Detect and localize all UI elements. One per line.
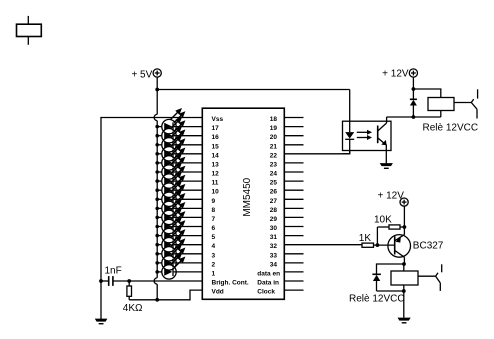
svg-text:32: 32	[270, 243, 278, 250]
wire Vss to ground rail	[101, 118, 202, 320]
pin label 5	[212, 234, 216, 241]
svg-text:10K: 10K	[374, 215, 392, 226]
LED D17 (pin 1)	[155, 253, 202, 279]
svg-text:28: 28	[270, 207, 278, 214]
svg-text:17: 17	[212, 125, 220, 132]
LED D1 (pin 17)	[155, 108, 202, 134]
junction +12V/diode/coil	[412, 87, 416, 91]
power +12V (bottom)	[378, 191, 409, 207]
svg-text:Relè 12VCC: Relè 12VCC	[423, 123, 479, 134]
svg-text:BC327: BC327	[413, 241, 444, 252]
LED D7 (pin 11)	[155, 163, 202, 189]
wire +5V vertical	[156, 77, 158, 89]
pin label 9	[212, 198, 216, 205]
svg-text:10: 10	[212, 189, 220, 196]
pin label 6	[212, 225, 216, 232]
pin label 32	[270, 243, 278, 250]
wire pin stub right 25	[284, 180, 303, 182]
pin label 33	[270, 252, 278, 259]
pin label 11	[212, 180, 219, 187]
wire pin stub right 26	[284, 189, 303, 191]
junction diode bottom	[412, 115, 416, 119]
wire LED anode bus	[154, 90, 157, 300]
pin label 29	[270, 216, 278, 223]
wire pin stub right 28	[284, 207, 303, 209]
pin label Data in	[257, 280, 279, 287]
wire pin stub right 18	[284, 117, 303, 119]
svg-text:26: 26	[270, 189, 278, 196]
svg-text:MM5450: MM5450	[242, 177, 253, 216]
wire +12V down	[412, 77, 414, 89]
label MM5450	[242, 177, 253, 216]
LED D14 (pin 4)	[155, 226, 202, 252]
pin label 2	[212, 261, 216, 268]
svg-text:data en: data en	[257, 270, 280, 277]
transistor Q1 BC327	[388, 235, 444, 258]
pin label 14	[212, 152, 220, 159]
LED D9 (pin 9)	[155, 181, 202, 207]
wire pin stub right 29	[284, 216, 303, 218]
pin label 8	[212, 207, 216, 214]
wire pin stub right data en	[284, 271, 303, 273]
svg-text:15: 15	[212, 143, 220, 150]
LED D13 (pin 5)	[155, 217, 202, 243]
power +5V	[131, 69, 161, 80]
relay K2 coil	[349, 264, 418, 305]
wire pin stub right Clock	[284, 289, 303, 291]
LED D11 (pin 7)	[155, 199, 202, 225]
svg-text:25: 25	[270, 180, 278, 187]
svg-text:13: 13	[212, 161, 220, 168]
optocoupler phototransistor	[378, 117, 387, 163]
pin label Vdd	[212, 289, 224, 296]
LED D12 (pin 6)	[155, 208, 202, 234]
svg-text:Brigh. Cont.: Brigh. Cont.	[212, 280, 249, 287]
svg-text:Clock: Clock	[257, 289, 275, 296]
wire pin stub right 20	[284, 135, 303, 137]
ground (left rail)	[95, 319, 108, 325]
pin label 19	[270, 125, 278, 132]
pin label 3	[212, 252, 216, 259]
svg-text:22: 22	[270, 152, 278, 159]
LED D2 (pin 16)	[155, 117, 202, 143]
pin label 31	[270, 234, 278, 241]
resistor R2 10K	[374, 215, 404, 246]
optocoupler LED	[343, 121, 355, 154]
relay K1 coil	[423, 98, 479, 134]
pin label 7	[212, 216, 216, 223]
optocoupler U2 body	[343, 121, 392, 150]
wire to ground	[403, 291, 405, 318]
wire pin stub right 27	[284, 198, 303, 200]
svg-text:Data in: Data in	[257, 280, 279, 287]
op-amp U1 MM5450 body	[202, 108, 284, 299]
optocoupler coupling arrows	[357, 130, 372, 140]
power +12V (top)	[382, 69, 417, 80]
wire pin stub right 32	[284, 244, 303, 246]
pin label 16	[212, 134, 220, 141]
svg-text:27: 27	[270, 198, 278, 205]
svg-text:6: 6	[212, 225, 216, 232]
junction relay bottom	[402, 289, 406, 293]
svg-text:3: 3	[212, 252, 216, 259]
wire pin stub right 21	[284, 144, 303, 146]
svg-text:Vss: Vss	[212, 116, 224, 123]
capacitor C1 1nF	[101, 265, 122, 286]
svg-text:31: 31	[270, 234, 278, 241]
svg-text:1K: 1K	[359, 233, 372, 244]
svg-text:18: 18	[270, 116, 278, 123]
junction 10K right	[403, 225, 407, 229]
pin label Vss	[212, 116, 224, 123]
crystal X1	[17, 16, 42, 45]
resistor R3 1K	[359, 233, 395, 247]
svg-text:+ 5V: + 5V	[131, 69, 152, 80]
diode D18 flyback (top relay)	[410, 89, 417, 117]
relay K2 contact	[418, 264, 442, 291]
svg-text:29: 29	[270, 216, 278, 223]
svg-text:2: 2	[212, 261, 216, 268]
ground (optocoupler emitter)	[380, 163, 393, 169]
wire +12V to emitter node	[403, 206, 405, 235]
svg-text:+ 12V: + 12V	[382, 69, 409, 80]
junction rail/capacitor	[99, 279, 103, 283]
wire +12V to coil top	[413, 89, 440, 98]
LED D5 (pin 13)	[155, 144, 202, 170]
wire pin stub right 19	[284, 126, 303, 128]
svg-text:1nF: 1nF	[105, 265, 122, 276]
LED D16 (pin 2)	[155, 244, 202, 270]
pin label 26	[270, 189, 278, 196]
pin label 28	[270, 207, 278, 214]
wire pin stub right 24	[284, 171, 303, 173]
pin label 21	[270, 143, 278, 150]
pin label 24	[270, 171, 278, 178]
wire collector down	[403, 257, 405, 264]
wire 4K bottom to Vdd	[129, 290, 202, 300]
svg-text:Relè 12VCC: Relè 12VCC	[349, 294, 405, 305]
wire Brigh. Cont. line	[113, 280, 202, 282]
pin label Brigh. Cont.	[212, 280, 249, 287]
svg-text:16: 16	[212, 134, 220, 141]
svg-text:9: 9	[212, 198, 216, 205]
svg-text:20: 20	[270, 134, 278, 141]
pin label 20	[270, 134, 278, 141]
ground (bottom relay)	[398, 318, 411, 324]
wire pin stub right Data in	[284, 280, 303, 282]
pin label 12	[212, 171, 220, 178]
wire pin 22 to optocoupler	[304, 151, 350, 154]
pin label 25	[270, 180, 278, 187]
wire pin stub right 23	[284, 162, 303, 164]
wire pin stub right 31	[284, 235, 303, 237]
LED D8 (pin 10)	[155, 172, 202, 198]
relay K1 contact	[454, 89, 478, 118]
svg-text:21: 21	[270, 143, 278, 150]
junction +5V node	[155, 88, 159, 92]
pin label 15	[212, 143, 220, 150]
svg-text:11: 11	[212, 180, 219, 187]
pin label 10	[212, 189, 220, 196]
svg-text:34: 34	[270, 261, 278, 268]
LED D10 (pin 8)	[155, 190, 202, 216]
svg-text:14: 14	[212, 152, 220, 159]
wire +5V to optocoupler	[157, 90, 350, 122]
wire pin stub right 34	[284, 262, 303, 264]
svg-text:23: 23	[270, 161, 278, 168]
svg-text:19: 19	[270, 125, 278, 132]
junction base/10K	[376, 243, 380, 247]
svg-text:4: 4	[212, 243, 216, 250]
junction bus/Vdd wire	[155, 298, 159, 302]
svg-text:+ 12V: + 12V	[378, 191, 405, 202]
wire pin stub right 22	[284, 153, 303, 155]
pin label 22	[270, 152, 278, 159]
svg-text:8: 8	[212, 207, 216, 214]
svg-text:24: 24	[270, 171, 278, 178]
LED D3 (pin 15)	[155, 126, 202, 152]
junction collector node	[402, 262, 406, 266]
pin label data en	[257, 270, 280, 277]
diode D19 flyback (bottom relay)	[372, 264, 404, 291]
pin label Clock	[257, 289, 275, 296]
wire pin stub right 33	[284, 253, 303, 255]
LED D15 (pin 3)	[155, 235, 202, 261]
svg-text:4KΩ: 4KΩ	[123, 303, 143, 314]
wire pin stub right 30	[284, 226, 303, 228]
svg-text:7: 7	[212, 216, 216, 223]
pin label 23	[270, 161, 278, 168]
pin label 27	[270, 198, 278, 205]
resistor R1 4KOhm	[123, 281, 143, 314]
pin label 30	[270, 225, 278, 232]
svg-text:12: 12	[212, 171, 220, 178]
svg-text:30: 30	[270, 225, 278, 232]
LED D6 (pin 12)	[155, 153, 202, 179]
pin label 34	[270, 261, 278, 268]
wire pin 32 to R 1K	[304, 244, 363, 246]
pin label 18	[270, 116, 278, 123]
pin label 17	[212, 125, 220, 132]
svg-text:1: 1	[212, 270, 216, 277]
junction 4K top	[127, 279, 131, 283]
svg-text:Vdd: Vdd	[212, 289, 224, 296]
pin label 1	[212, 270, 216, 277]
svg-text:5: 5	[212, 234, 216, 241]
wire phototransistor collector to relay	[387, 111, 441, 118]
pin label 4	[212, 243, 216, 250]
LED D4 (pin 14)	[155, 135, 202, 161]
svg-text:33: 33	[270, 252, 278, 259]
pin label 13	[212, 161, 220, 168]
